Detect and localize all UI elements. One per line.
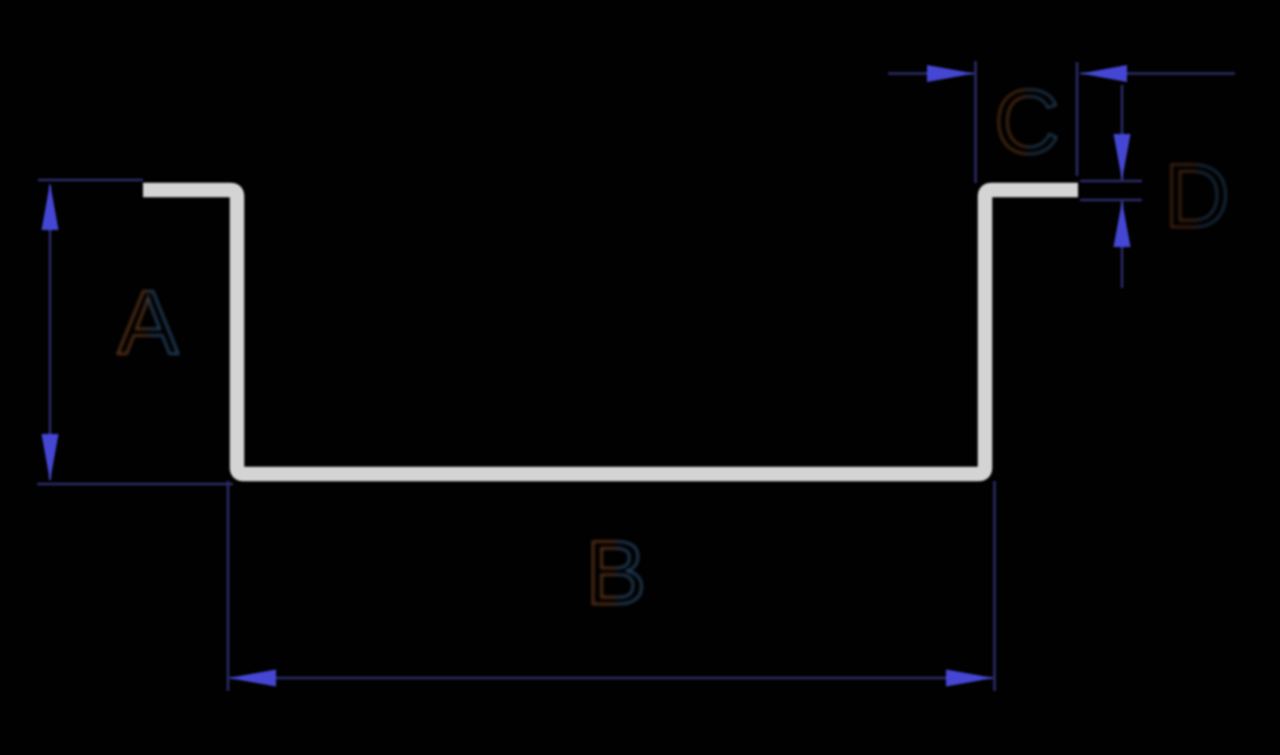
dimension D arrow down bbox=[1114, 134, 1131, 180]
svg-text:B: B bbox=[586, 523, 647, 624]
dimension A line bbox=[49, 185, 52, 480]
dimension C arrow left-pointing bbox=[1081, 65, 1127, 82]
dimension C line right segment bbox=[1080, 72, 1235, 75]
dimension A extension line top bbox=[38, 179, 143, 182]
dimension D arrow up bbox=[1114, 201, 1131, 247]
dimension D extension line top bbox=[1080, 180, 1142, 183]
dimension A arrow down bbox=[42, 434, 59, 481]
dimension B extension line right bbox=[993, 481, 996, 691]
dimension B arrow right bbox=[946, 670, 994, 687]
dimension A arrow up bbox=[42, 183, 59, 230]
dimension C extension line right bbox=[1076, 62, 1079, 176]
svg-text:C: C bbox=[994, 72, 1060, 173]
dimension B line bbox=[230, 677, 993, 680]
dimension C extension line left bbox=[974, 61, 977, 183]
dimension A extension line bottom bbox=[37, 483, 233, 486]
dimension D line upper bbox=[1121, 85, 1124, 180]
dimension D line lower bbox=[1121, 201, 1124, 288]
dimension C line left segment bbox=[888, 72, 974, 75]
dimension C arrow right-pointing bbox=[927, 65, 974, 82]
svg-text:D: D bbox=[1164, 146, 1230, 247]
channel profile cross-section bbox=[143, 190, 1078, 474]
dimension B arrow left bbox=[229, 670, 277, 687]
dimension B extension line left bbox=[227, 481, 230, 691]
svg-text:A: A bbox=[118, 273, 179, 374]
dimension D extension line bottom bbox=[1080, 199, 1142, 202]
